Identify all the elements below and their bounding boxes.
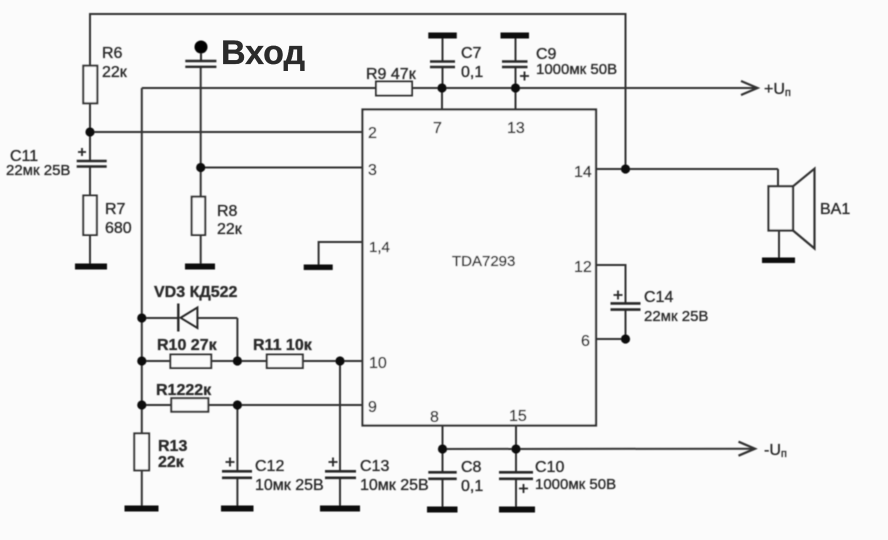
svg-text:R7: R7 (105, 201, 126, 218)
wire R9 feed (142, 87, 376, 89)
node bus/R12 (137, 400, 146, 409)
wire C11 R7 stack (89, 132, 91, 160)
wire pin 14 to speaker (596, 168, 778, 170)
wire C12 stem (236, 405, 238, 470)
svg-text:22к: 22к (102, 64, 128, 81)
node pin15/C10 (511, 444, 520, 453)
svg-text:C7: C7 (461, 45, 482, 62)
svg-text:-Uп: -Uп (764, 442, 787, 460)
node C14/pin6 (621, 334, 630, 343)
wire C9 stems (515, 38, 517, 61)
resistor R8 (192, 197, 206, 235)
svg-text:TDA7293: TDA7293 (452, 253, 515, 270)
wire C7 stems (442, 38, 444, 61)
capacitor C13 (325, 471, 356, 478)
svg-text:BA1: BA1 (820, 201, 850, 218)
node R12/C12 (233, 400, 242, 409)
ground pin 1,4 (304, 265, 333, 271)
ground C8 (427, 507, 458, 513)
resistor R13 (134, 433, 149, 470)
svg-text:R8: R8 (217, 203, 238, 220)
svg-text:9: 9 (368, 399, 377, 416)
wire R11 to pin 10 (303, 360, 363, 362)
svg-text:C13: C13 (360, 458, 389, 475)
wire pin 13 stem (515, 88, 517, 110)
capacitor C9 (502, 62, 528, 68)
svg-text:15: 15 (509, 408, 527, 425)
svg-text:1,4: 1,4 (369, 239, 390, 256)
resistor R10 (170, 355, 211, 369)
wire pin 3 (201, 167, 363, 169)
wire R10 row (142, 360, 171, 362)
svg-text:0,1: 0,1 (461, 64, 483, 81)
wire R8 to ground (200, 168, 202, 198)
capacitor C14 (611, 303, 641, 309)
wire R13 to ground (141, 470, 143, 506)
node C7/pin7 (437, 83, 446, 92)
wire pin 6 (596, 338, 626, 340)
svg-text:22к: 22к (217, 221, 243, 238)
ground C10 (499, 507, 535, 513)
svg-text:R1222к: R1222к (156, 382, 212, 399)
svg-text:10мк 25В: 10мк 25В (255, 477, 324, 494)
wire top rail from R6 top to output node (90, 14, 626, 169)
svg-text:1000мк 50В: 1000мк 50В (536, 61, 617, 78)
wire pin 12 to C14 (596, 265, 626, 303)
svg-text:R6: R6 (102, 45, 123, 62)
svg-text:14: 14 (574, 164, 592, 181)
svg-text:12: 12 (574, 259, 592, 276)
node R6/C11/pin2 (85, 127, 94, 136)
node output pin14 (621, 164, 630, 173)
wire diode branch (142, 317, 179, 319)
capacitor C10 (499, 472, 533, 479)
wire pin 15 stem (515, 426, 517, 450)
svg-text:680: 680 (105, 220, 132, 237)
arrow +U (741, 81, 758, 95)
wire -U supply (443, 448, 754, 450)
wire C8 stem (442, 449, 444, 471)
svg-text:3: 3 (368, 162, 377, 179)
wire pin 8 stem (442, 426, 444, 450)
wire pin 7 stem (441, 88, 443, 110)
svg-text:22мк 25В: 22мк 25В (6, 162, 70, 179)
svg-text:C10: C10 (535, 459, 564, 476)
capacitor C12 (222, 471, 252, 478)
svg-text:R10 27к: R10 27к (157, 337, 218, 354)
node input/R8/pin3 (196, 163, 205, 172)
diode VD3 (177, 304, 179, 332)
svg-text:13: 13 (507, 120, 525, 137)
op-amp U1 TDA7293 body (363, 110, 597, 426)
capacitor C7 (430, 62, 455, 68)
svg-text:22к: 22к (158, 454, 185, 471)
wire input vertical (200, 67, 202, 168)
svg-text:1000мк 50В: 1000мк 50В (535, 476, 616, 493)
svg-text:C12: C12 (255, 458, 284, 475)
wire pin 2 (90, 131, 363, 133)
wire left bus (141, 88, 143, 433)
wire C10 stem (515, 449, 517, 471)
svg-text:22мк 25В: 22мк 25В (644, 308, 708, 325)
svg-text:0,1: 0,1 (461, 478, 483, 495)
input connector Вход (195, 41, 208, 54)
node diode/R10/R11 (233, 356, 242, 365)
svg-text:8: 8 (430, 409, 439, 426)
resistor R12 (171, 398, 208, 412)
wire C14 to pin 6 (625, 310, 627, 339)
ground speaker (762, 258, 795, 264)
svg-text:R11 10к: R11 10к (253, 337, 313, 354)
wire R6 bottom to node (89, 103, 91, 132)
arrow -U (739, 442, 756, 456)
ground R13 (125, 506, 159, 512)
svg-text:C14: C14 (644, 289, 673, 306)
svg-text:C8: C8 (461, 459, 482, 476)
resistor R7 (83, 196, 97, 236)
svg-text:2: 2 (368, 125, 377, 142)
ground R8 (185, 264, 215, 270)
node R11/C13/pin10 (335, 356, 344, 365)
wire C13 stem (339, 361, 341, 470)
svg-text:7: 7 (433, 120, 442, 137)
resistor R6 (83, 66, 97, 104)
capacitor C11 (77, 161, 107, 167)
ground R7 (75, 264, 107, 270)
wire pin 1,4 to ground (319, 242, 363, 265)
svg-text:R9 47к: R9 47к (366, 66, 417, 83)
wire speaker to ground (778, 231, 780, 259)
svg-text:VD3 КД522: VD3 КД522 (154, 284, 238, 301)
wire R12 row pin 9 (142, 404, 172, 406)
resistor R9 (376, 82, 412, 96)
node bus/R10 (137, 356, 146, 365)
node bus/diode (137, 313, 146, 322)
svg-text:10мк 25В: 10мк 25В (360, 477, 429, 494)
svg-text:Вход: Вход (221, 34, 305, 72)
capacitor C8 (428, 472, 456, 479)
svg-text:10: 10 (369, 355, 387, 372)
wire +U supply (516, 87, 756, 89)
speaker BA1 (769, 186, 794, 230)
ground C13 (320, 506, 360, 512)
node C9/pin13 (511, 83, 520, 92)
ground C12 (221, 506, 254, 512)
svg-text:R13: R13 (158, 438, 187, 455)
resistor R11 (267, 355, 303, 369)
node pin8/C8 (438, 444, 447, 453)
svg-text:6: 6 (581, 333, 590, 350)
wire R7 to ground (89, 235, 91, 264)
svg-text:+Uп: +Uп (764, 81, 791, 99)
